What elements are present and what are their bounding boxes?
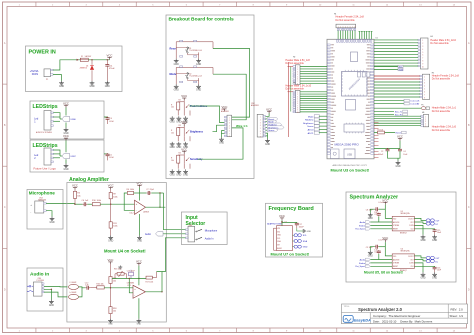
svg-text:P1: P1: [46, 79, 48, 81]
section box POWER IN: [26, 46, 123, 92]
power flag VCC LEDStrips2: [63, 134, 69, 140]
svg-text:Company: The Electronic Engin: Company: The Electronic Engineer: [373, 314, 420, 318]
svg-text:GND: GND: [265, 144, 270, 146]
svg-text:TS-1187A-C-L-B: TS-1187A-C-L-B: [189, 75, 202, 78]
svg-text:100k: 100k: [113, 196, 117, 198]
wire Sensitivity to CN5: [198, 128, 244, 159]
switch SW1 PCM12SMTR: [186, 225, 203, 242]
svg-text:Mount U5, U6 on Socket!: Mount U5, U6 on Socket!: [364, 271, 403, 275]
gnd under CN5: [219, 137, 224, 144]
svg-text:C7: C7: [146, 189, 148, 191]
resistor R15 10k upper divider: [109, 264, 117, 288]
svg-text:VCC: VCC: [181, 120, 187, 124]
header H1 top label: [334, 14, 364, 22]
svg-text:GND: GND: [432, 240, 437, 242]
gnd text pair bottom: [108, 323, 141, 325]
fuse F1 5A 250V: [80, 55, 92, 61]
svg-text:-: -: [136, 209, 137, 212]
wire CN1 pin1 to rail: [53, 60, 80, 70]
svg-text:VCC: VCC: [382, 236, 388, 240]
wire VCC to opamp: [139, 188, 141, 201]
wire VCC stub to U7: [281, 220, 283, 226]
svg-text:REV: 2.0: REV: 2.0: [451, 308, 464, 312]
MEGA top pin row: [337, 40, 372, 43]
svg-text:10k: 10k: [113, 281, 116, 283]
svg-text:GND: GND: [395, 166, 400, 168]
svg-text:100k: 100k: [97, 200, 101, 202]
svg-text:GND: GND: [196, 64, 201, 66]
svg-text:R6: R6: [127, 189, 129, 191]
capacitor C17 100nF frequency: [295, 223, 305, 228]
wires H3 to MEGA: [300, 92, 327, 112]
svg-text:GND: GND: [108, 323, 113, 325]
ATMEGA2560 chip: [341, 70, 367, 96]
svg-text:Do Not assemble: Do Not assemble: [336, 19, 356, 22]
wire jack sleeve to gnd: [44, 289, 51, 299]
svg-text:MSGEQ7: MSGEQ7: [400, 233, 407, 235]
svg-text:47uF: 47uF: [109, 121, 114, 123]
passive blocks row: [358, 72, 361, 77]
svg-text:100nF: 100nF: [378, 154, 384, 156]
section box Spectrum Analyzer: [346, 192, 456, 282]
svg-text:ADA2881: ADA2881: [251, 104, 259, 107]
svg-text:VCC: VCC: [181, 94, 187, 98]
svg-text:100nF: 100nF: [299, 226, 305, 228]
wire R6 to C7: [134, 192, 147, 194]
MEGA left pin row: [327, 44, 336, 154]
header H6 connector: [421, 112, 457, 132]
section box LEDStrips 2: [30, 140, 104, 172]
svg-text:C10: C10: [374, 214, 377, 216]
op-amp U3.1 LM358N: [127, 283, 146, 299]
gnd under R18: [108, 319, 113, 323]
svg-text:GND: GND: [108, 241, 113, 243]
svg-text:Audio In: Audio In: [30, 271, 49, 277]
header H2 connector: [293, 65, 300, 86]
svg-text:CLK: CLK: [411, 266, 414, 268]
svg-text:TITLE:: TITLE:: [344, 306, 350, 308]
svg-text:L4 600R: L4 600R: [70, 292, 77, 294]
svg-text:5A 250V: 5A 250V: [85, 55, 92, 58]
svg-text:Microphone: Microphone: [29, 191, 55, 196]
svg-text:Spectrum Analyzer: Spectrum Analyzer: [350, 195, 400, 201]
svg-text:Future Use / Logo: Future Use / Logo: [34, 167, 57, 171]
net labels Bus cluster: [374, 110, 407, 116]
net port Audio: [145, 232, 163, 237]
svg-text:GND: GND: [183, 175, 188, 177]
svg-text:C8 10nF: C8 10nF: [366, 210, 374, 212]
junction dots rail: [91, 59, 92, 60]
svg-text:Do Not assemble: Do Not assemble: [432, 129, 451, 132]
wires CN5 lower pins: [222, 131, 225, 134]
gnd LEDStrips2: [63, 159, 68, 171]
svg-text:ADAFRUIT 1880: ADAFRUIT 1880: [267, 223, 281, 226]
wires H2 to MEGA: [300, 67, 327, 84]
svg-text:VCC: VCC: [266, 107, 272, 111]
svg-text:Spectrum Analyzer 2.0: Spectrum Analyzer 2.0: [358, 307, 402, 312]
svg-text:DCIN: DCIN: [32, 72, 38, 76]
inductor L3: [69, 282, 79, 290]
wire mic out to amplifier: [46, 203, 74, 206]
net port LED1: [62, 116, 77, 122]
gnd under D4: [89, 81, 94, 88]
wire Reset to CN5: [213, 49, 250, 118]
svg-text:LCD_DAT: LCD_DAT: [410, 103, 420, 106]
resistor R17 100k feedback lower: [146, 272, 157, 284]
svg-text:U7: U7: [285, 222, 287, 224]
resistor R1 10k reset: [378, 130, 385, 134]
regulator block: [346, 100, 356, 111]
svg-text:POWER IN: POWER IN: [29, 50, 56, 56]
svg-text:GND: GND: [219, 143, 224, 145]
svg-text:100k: 100k: [130, 189, 134, 191]
svg-text:R17 100k: R17 100k: [146, 282, 154, 284]
power flag VCC opamp U4: [137, 181, 143, 187]
svg-text:R2: R2: [179, 100, 181, 102]
wire U7 left loop: [274, 228, 277, 250]
svg-text:VCC: VCC: [279, 214, 285, 218]
wire audio port to selector common: [161, 233, 186, 235]
svg-text:INT: INT: [277, 245, 280, 247]
wire Peak Holdtime to CN5: [189, 106, 227, 123]
svg-text:H6: H6: [422, 112, 424, 114]
svg-text:RESET: RESET: [393, 229, 398, 231]
header H5 label: [432, 73, 460, 81]
junction output lower: [161, 291, 162, 292]
resistor R10 100k: [92, 200, 101, 206]
svg-text:GND: GND: [49, 222, 54, 224]
svg-text:10: 10: [422, 66, 424, 68]
EasyEDA logo: [343, 316, 371, 323]
svg-text:LEDStrips: LEDStrips: [33, 104, 58, 110]
svg-text:Date: 2021-02-10 Drawn B: Date: 2021-02-10 Drawn By: Mark Donners: [373, 320, 433, 324]
wire VCC2 to port row: [65, 140, 67, 152]
wire VCC rail to C17: [282, 221, 297, 224]
connector Led1: [34, 111, 53, 135]
svg-text:GND: GND: [368, 256, 373, 258]
svg-text:R3: R3: [179, 125, 181, 127]
svg-text:1: 1: [422, 40, 423, 42]
power flag VCC R9: [108, 184, 114, 190]
svg-text:C: C: [468, 206, 470, 209]
svg-text:GND: GND: [174, 64, 179, 66]
svg-text:SCL: SCL: [277, 238, 280, 240]
gnd under R11: [108, 235, 113, 242]
wire CN1 pin2 to gnd: [53, 75, 62, 81]
wire VCC to rail and U3: [138, 266, 140, 286]
svg-text:OUT: OUT: [410, 222, 413, 224]
svg-text:MSGEQ7A: MSGEQ7A: [401, 212, 411, 215]
svg-text:LM358: LM358: [143, 212, 149, 214]
wire jack ring to L4: [44, 292, 67, 297]
capacitor C11 470uF: [105, 60, 115, 81]
svg-text:Sensitivity: Sensitivity: [190, 158, 203, 161]
MEGA right pin row: [365, 44, 374, 154]
section box Analog Amplifier: [67, 183, 166, 323]
wire Brightness to CN5: [213, 125, 228, 132]
net labels SCL SDA: [374, 65, 403, 71]
svg-text:Audio: Audio: [360, 221, 366, 224]
svg-text:Mode: Mode: [308, 116, 314, 118]
svg-text:Do Not assemble: Do Not assemble: [430, 42, 449, 45]
wire R10 to opamp +in: [100, 203, 134, 205]
gnd under C11: [105, 81, 110, 88]
svg-text:Mode: Mode: [170, 72, 177, 76]
svg-text:4: 4: [422, 49, 423, 51]
svg-text:9: 9: [422, 63, 423, 65]
svg-text:GND: GND: [170, 122, 175, 124]
gnd small above trimmer: [118, 265, 122, 269]
wires Led2 to port: [54, 150, 63, 158]
svg-text:Brightness: Brightness: [190, 131, 204, 134]
header H5 connector: [420, 74, 430, 99]
svg-text:6: 6: [422, 55, 423, 57]
svg-text:Frequency Board: Frequency Board: [269, 206, 314, 212]
gnd under microphone: [49, 217, 54, 224]
svg-text:MAX4466: MAX4466: [38, 198, 46, 201]
capacitor C6 1uF: [82, 200, 90, 206]
svg-text:ZMM5V6: ZMM5V6: [80, 68, 87, 70]
decoupling gnd rail: [388, 151, 401, 158]
capacitor C13 10uF purple: [127, 270, 136, 279]
wire feedback to output vertical: [159, 193, 161, 207]
power flag VCC frequency: [279, 214, 285, 220]
svg-text:Strobe: Strobe: [359, 224, 366, 227]
svg-text:CLKIN: CLKIN: [409, 263, 413, 265]
junction divider: [110, 204, 111, 205]
svg-text:MSGEQ7A: MSGEQ7A: [401, 250, 411, 253]
junction lower divider: [110, 287, 111, 288]
wire VCC to port row: [65, 108, 67, 116]
wire opamp output lower: [146, 291, 163, 293]
feedback rail lower: [112, 278, 146, 280]
wire C7 to feedback rail end: [151, 192, 163, 194]
svg-text:U1: U1: [376, 38, 378, 40]
header H4 connector: [418, 38, 428, 69]
frame ticks left/right: [3, 42, 472, 291]
svg-text:10k: 10k: [101, 284, 104, 286]
wires H1 to MEGA top: [338, 31, 355, 40]
wire Mode to CN5: [213, 74, 246, 120]
svg-text:Sense: Sense: [268, 130, 275, 132]
power flag VCC lower divider: [108, 258, 114, 264]
wire CN2 pin1 vcc: [266, 114, 270, 117]
wire jack tip to L3: [44, 286, 67, 288]
title block outer: [342, 304, 468, 324]
inductor L4: [69, 292, 79, 300]
svg-text:2: 2: [422, 43, 423, 45]
svg-text:10: 10: [297, 112, 299, 114]
svg-text:GND: GND: [63, 169, 68, 171]
svg-text:100k: 100k: [113, 226, 117, 228]
capacitor C12 1uF: [85, 283, 90, 290]
power flag VCC opamp U3: [136, 260, 142, 266]
svg-text:C13 10uF: C13 10uF: [127, 270, 136, 272]
net labels U7 ports: [303, 235, 308, 249]
chip U7 frequency: [277, 222, 293, 251]
svg-text:VCC: VCC: [72, 184, 78, 188]
svg-text:Sense: Sense: [307, 126, 314, 128]
svg-text:7: 7: [422, 58, 423, 60]
section title Input Selector: [186, 215, 206, 227]
wire L3 L4 join: [79, 286, 86, 289]
svg-text:VCC: VCC: [63, 134, 69, 138]
junction input: [74, 204, 75, 205]
CH340 chip: [344, 123, 364, 134]
svg-text:TS-1187A-C-L-B: TS-1187A-C-L-B: [189, 49, 202, 52]
svg-text:ADC1: ADC1: [308, 132, 315, 135]
svg-text:VCC: VCC: [136, 260, 142, 264]
svg-text:R13 100k: R13 100k: [114, 268, 122, 270]
junction output: [159, 207, 160, 208]
svg-text:R1 10k: R1 10k: [378, 130, 384, 132]
svg-text:F1: F1: [81, 56, 83, 58]
svg-text:GND: GND: [303, 247, 308, 249]
unconnected pin stubs right edge: [374, 123, 379, 158]
section box Audio In: [27, 268, 63, 311]
svg-text:8: 8: [422, 61, 423, 63]
svg-text:OUT: OUT: [410, 259, 413, 261]
svg-text:470uF: 470uF: [109, 68, 115, 70]
svg-text:Bus_Tx: Bus_Tx: [395, 111, 403, 113]
svg-text:Peak Holdtime: Peak Holdtime: [190, 105, 208, 108]
svg-text:Audio: Audio: [145, 233, 152, 236]
svg-text:Reset: Reset: [170, 46, 177, 50]
capacitor C5 47uF: [104, 153, 115, 160]
svg-text:5: 5: [422, 52, 423, 54]
svg-text:GND: GND: [420, 278, 425, 280]
wire fuse to VCC rail: [88, 59, 109, 61]
svg-text:MEGA 2560 PRO: MEGA 2560 PRO: [335, 143, 360, 147]
zener diode D4 ZMM5V6: [80, 60, 94, 81]
gnd LEDStrips1: [63, 123, 68, 135]
section box LEDStrips 1: [30, 101, 104, 139]
svg-text:CLK: CLK: [411, 229, 414, 231]
svg-text:PJ-324M: PJ-324M: [37, 280, 45, 282]
svg-text:VCC: VCC: [382, 198, 388, 202]
svg-text:LCD_CLK: LCD_CLK: [410, 101, 420, 103]
net labels to MEGA left: [303, 115, 327, 135]
svg-text:GND: GND: [176, 175, 181, 177]
svg-text:10k: 10k: [113, 311, 116, 313]
svg-text:P5: P5: [421, 104, 423, 106]
svg-text:Do Not assemble: Do Not assemble: [432, 110, 451, 113]
svg-text:C9 10nF: C9 10nF: [366, 247, 374, 249]
header H3 connector: [293, 90, 300, 114]
section box Frequency Board: [266, 203, 323, 257]
svg-text:Rst_Spect: Rst_Spect: [355, 265, 365, 268]
power flag VCC: [107, 54, 113, 60]
svg-text:GND: GND: [368, 218, 373, 220]
svg-text:3: 3: [422, 46, 423, 48]
title text: [344, 306, 403, 312]
svg-text:USB: USB: [347, 154, 352, 157]
svg-text:DCOUT: DCOUT: [408, 218, 413, 220]
svg-text:R4: R4: [179, 153, 181, 155]
gnd under CN1: [59, 81, 64, 88]
svg-text:GND: GND: [196, 90, 201, 92]
section box Microphone: [27, 190, 63, 230]
resistor R6 100k feedback: [127, 189, 134, 194]
svg-text:Strobe: Strobe: [359, 262, 366, 265]
svg-text:GND: GND: [89, 86, 94, 88]
svg-text:GND: GND: [307, 231, 312, 233]
svg-text:VCC: VCC: [63, 101, 69, 105]
resistor R5 10k: [73, 190, 80, 204]
potentiometer R2 Peak Holdtime: [170, 94, 208, 123]
svg-text:GND: GND: [59, 86, 64, 88]
wire opamp -in lower: [129, 279, 133, 293]
svg-text:Microphone: Microphone: [205, 230, 218, 233]
resistor R16 10k: [90, 284, 104, 289]
svg-text:H4: H4: [430, 36, 432, 38]
header H4 label: [430, 36, 456, 45]
power flag VCC decoupling: [397, 135, 403, 141]
wire opamp output to selector: [146, 206, 166, 208]
U7 right side ports: [293, 234, 302, 249]
svg-text:VCC: VCC: [181, 147, 187, 151]
wires MEGA to H4: [374, 40, 418, 66]
resistor R11 100k: [109, 204, 118, 235]
power flag VCC R5: [72, 184, 78, 190]
svg-text:GND: GND: [105, 86, 110, 88]
USB connector block: [331, 149, 356, 159]
svg-text:Holdtime: Holdtime: [305, 119, 314, 122]
audio jack CN4 PJ-324M: [27, 278, 44, 296]
svg-text:Mount U4 on Socket!: Mount U4 on Socket!: [104, 249, 146, 254]
svg-text:L3 600R: L3 600R: [70, 282, 77, 284]
svg-text:GND: GND: [432, 278, 437, 280]
svg-text:GND: GND: [420, 240, 425, 242]
wires MEGA to H5: [374, 76, 420, 97]
wires MEGA to H6: [374, 116, 421, 125]
power flag VCC CN2: [266, 107, 272, 113]
svg-text:GND: GND: [174, 90, 179, 92]
svg-text:STROBE: STROBE: [393, 263, 399, 265]
svg-text:47uF: 47uF: [109, 157, 114, 159]
connector CN5 ribbon: [221, 105, 232, 138]
section box Input Selector: [181, 212, 227, 245]
svg-text:VCC: VCC: [137, 181, 143, 185]
svg-text:R16: R16: [96, 284, 99, 286]
resistor R18 10k lower divider: [109, 288, 117, 319]
gnd under opamp U4: [137, 214, 142, 243]
potentiometer R4 Sensitivity: [170, 147, 203, 176]
svg-text:-: -: [30, 211, 31, 214]
net flags CN2: [266, 117, 284, 132]
svg-text:Breakout Board for controls: Breakout Board for controls: [169, 16, 234, 22]
svg-text:GND: GND: [49, 305, 54, 307]
svg-text:U4.2: U4.2: [130, 213, 134, 215]
net label Reset right: [374, 131, 406, 134]
svg-text:Mount U3 on Socket!: Mount U3 on Socket!: [331, 167, 370, 172]
svg-text:10k: 10k: [171, 107, 174, 109]
power rail wires left headers: [288, 62, 294, 137]
resistor R9 100k: [109, 190, 117, 204]
module U1 MEGA 2560 PRO: [327, 38, 378, 159]
svg-text:10k: 10k: [171, 132, 174, 134]
svg-text:GND: GND: [170, 147, 175, 149]
capacitor C2 100nF: [378, 149, 389, 156]
net port LED2: [62, 153, 77, 159]
svg-text:RESET: RESET: [393, 266, 398, 268]
wires Led1 to port: [54, 113, 63, 122]
crystal block: [351, 52, 358, 62]
wire C6 to R10: [87, 203, 92, 205]
pushbutton S2 Mode: [170, 66, 214, 92]
wire CN2 gnd pins: [266, 133, 268, 136]
section box Breakout Board for controls: [166, 15, 254, 179]
